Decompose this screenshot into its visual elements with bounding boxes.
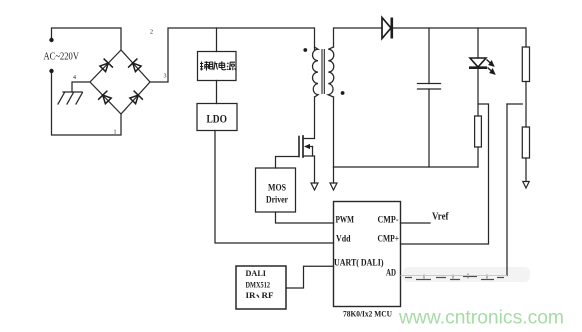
svg-text:MOS: MOS xyxy=(268,184,286,194)
svg-text:Driver: Driver xyxy=(266,196,289,206)
svg-text:AC~220V: AC~220V xyxy=(44,52,80,63)
svg-text:Vref: Vref xyxy=(432,212,449,223)
svg-text:3: 3 xyxy=(164,74,167,80)
svg-text:4: 4 xyxy=(73,75,76,81)
svg-text:www.cntronics.com: www.cntronics.com xyxy=(398,307,564,329)
svg-text:CMP-: CMP- xyxy=(378,216,399,226)
svg-text:UART( DALI): UART( DALI) xyxy=(334,258,384,269)
svg-text:PWM: PWM xyxy=(336,216,355,226)
svg-text:78K0/Ix2 MCU: 78K0/Ix2 MCU xyxy=(343,309,392,319)
svg-text:DMX512: DMX512 xyxy=(246,279,271,289)
svg-text:1: 1 xyxy=(114,130,117,136)
svg-text:DALI: DALI xyxy=(246,268,267,278)
svg-text:RF: RF xyxy=(262,290,274,300)
svg-text:2: 2 xyxy=(150,30,153,36)
svg-text:Vdd: Vdd xyxy=(336,235,351,245)
svg-text:LDO: LDO xyxy=(207,112,228,126)
svg-text:AD: AD xyxy=(386,269,396,279)
svg-text:CMP+: CMP+ xyxy=(378,235,400,245)
svg-text:IR: IR xyxy=(246,290,257,300)
